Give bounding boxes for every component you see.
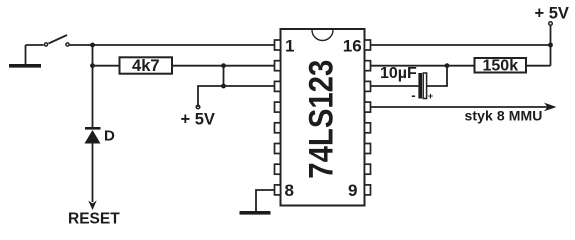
wire pin 15 to RC node: [371, 65, 475, 67]
svg-text:9: 9: [348, 181, 357, 200]
resistor 150k: [475, 58, 527, 75]
+5V terminal (left): [181, 105, 215, 128]
pin 3: [275, 81, 281, 91]
wire diode to RESET arrow: [92, 144, 94, 203]
pin 1: [275, 40, 281, 50]
svg-text:+: +: [428, 91, 433, 101]
pin 14: [365, 81, 371, 91]
wire to 4k7: [93, 65, 120, 67]
RESET arrow: [88, 201, 96, 211]
switch S1: [44, 35, 69, 46]
svg-text:10µF: 10µF: [380, 65, 417, 82]
svg-text:+ 5V: + 5V: [181, 111, 215, 129]
pin 8: [275, 185, 281, 195]
resistor 4k7: [120, 57, 173, 75]
wire pin 16 to +5V rail: [371, 44, 551, 46]
svg-text:1: 1: [285, 37, 294, 56]
node junction at switch/diode branch: [90, 43, 95, 48]
svg-text:16: 16: [343, 37, 362, 56]
pin 9: [365, 185, 371, 195]
svg-text:+ 5V: + 5V: [535, 4, 569, 22]
arrow styk 8 MMU: [544, 103, 557, 112]
svg-text:styk 8 MMU: styk 8 MMU: [465, 108, 543, 124]
node junction pin2 net: [221, 63, 226, 68]
ground (pin 8): [240, 211, 271, 215]
wire 4k7 to pin 2: [172, 65, 275, 67]
pin 11: [365, 144, 371, 154]
node junction +5V / pin16: [548, 43, 553, 48]
wire capacitor to RC node: [427, 66, 447, 86]
pin 16: [365, 40, 371, 50]
ground (switch side): [9, 45, 41, 68]
wire 150k to +5V rail: [526, 65, 551, 67]
wire switch to pin 1: [70, 44, 276, 46]
pin 13: [365, 102, 371, 112]
wire +5V vertical rail: [550, 26, 552, 66]
svg-text:D: D: [104, 128, 115, 145]
pin 4: [275, 102, 281, 112]
wire pin3 net: [198, 86, 275, 107]
+5V terminal (top right): [535, 4, 569, 25]
pin 10: [365, 164, 371, 174]
svg-text:150k: 150k: [483, 58, 519, 75]
node junction RC: [445, 63, 450, 68]
pin 15: [365, 61, 371, 71]
node junction at 4k7 branch: [90, 63, 95, 68]
svg-text:4k7: 4k7: [132, 57, 160, 75]
pin 5: [275, 123, 281, 133]
op-amp / IC body U1 74LS123: [275, 29, 371, 206]
node junction pin3 net: [221, 84, 226, 89]
capacitor C 10uF: [380, 65, 433, 103]
pin 6: [275, 144, 281, 154]
svg-text:RESET: RESET: [68, 211, 120, 228]
wire pin 14 to capacitor: [371, 85, 419, 87]
svg-text:8: 8: [285, 181, 294, 200]
pin 7: [275, 164, 281, 174]
wire pin 13 output styk 8 MMU: [371, 106, 549, 108]
svg-text:-: -: [411, 87, 415, 102]
wire pin 8 to ground: [256, 190, 275, 211]
wire down to diode: [92, 45, 94, 128]
wire junction down: [223, 66, 225, 86]
pin 2: [275, 61, 281, 71]
svg-text:74LS123: 74LS123: [303, 60, 341, 179]
pin 12: [365, 123, 371, 133]
wire ground to switch: [26, 44, 44, 46]
diode D: [85, 127, 116, 145]
